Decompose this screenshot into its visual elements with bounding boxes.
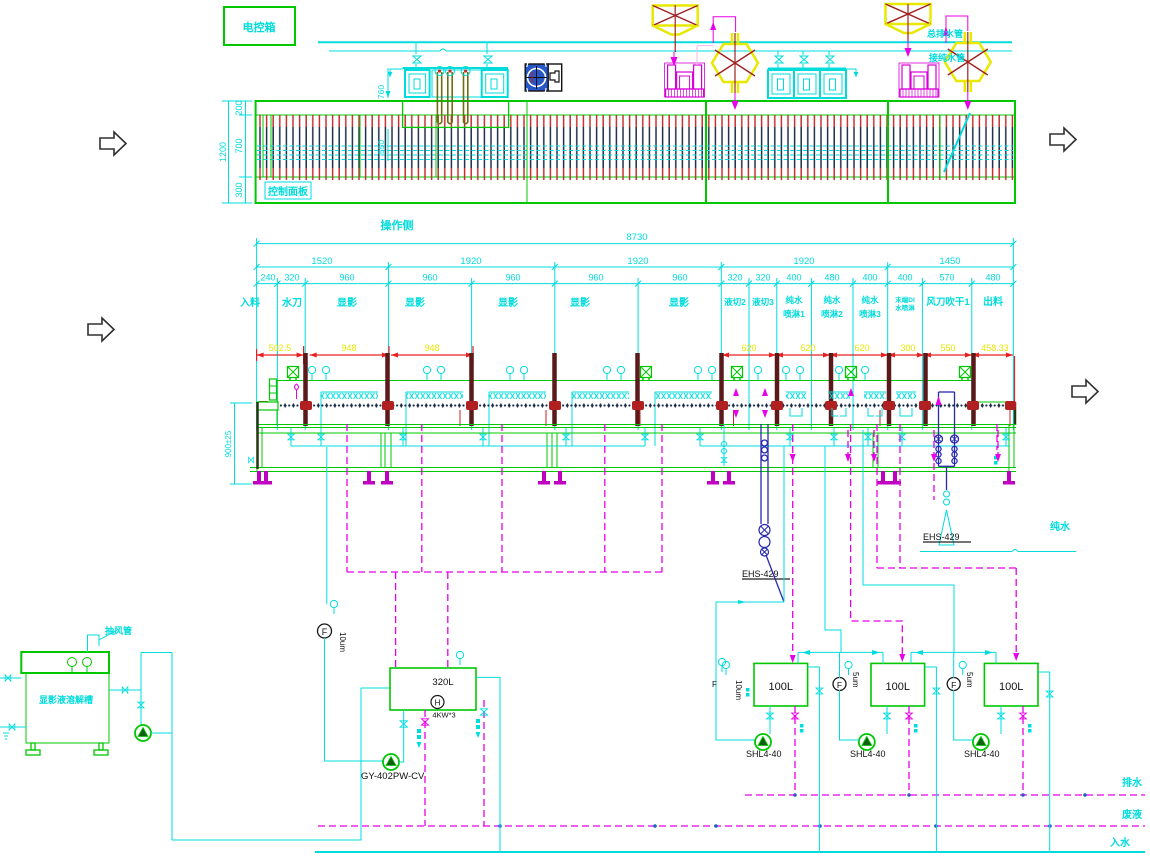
svg-text:100L: 100L bbox=[999, 681, 1023, 693]
magenta flag bbox=[295, 384, 299, 399]
spray bars (developing zones) bbox=[321, 392, 916, 399]
svg-text:1450: 1450 bbox=[939, 256, 960, 267]
svg-text:1920: 1920 bbox=[460, 256, 481, 267]
tank bottom / frame bbox=[257, 424, 1016, 426]
svg-text:960: 960 bbox=[505, 273, 520, 283]
svg-text:出料: 出料 bbox=[983, 295, 1003, 308]
svg-text:948: 948 bbox=[424, 343, 439, 353]
vent pipe 抽风管 bbox=[88, 635, 100, 652]
svg-text:960: 960 bbox=[588, 273, 603, 283]
svg-text:总排水管: 总排水管 bbox=[927, 28, 963, 39]
svg-text:4KW*3: 4KW*3 bbox=[432, 711, 455, 720]
svg-text:水刀: 水刀 bbox=[281, 296, 302, 309]
svg-text:F: F bbox=[712, 680, 717, 689]
svg-text:显影: 显影 bbox=[669, 297, 689, 309]
right side drain header bbox=[700, 445, 1010, 447]
svg-text:458.33: 458.33 bbox=[981, 343, 1009, 353]
drain header bbox=[291, 445, 645, 447]
svg-text:700: 700 bbox=[234, 138, 244, 153]
svg-text:400: 400 bbox=[786, 273, 801, 283]
junction dots on mains bbox=[498, 793, 1087, 828]
svg-text:喷淋1: 喷淋1 bbox=[783, 309, 805, 319]
gauge pairs bbox=[308, 366, 315, 380]
red sub-dims with yellow labels bbox=[257, 346, 1013, 364]
pure water line 纯水 bbox=[920, 551, 1012, 553]
left tank side valves bbox=[0, 677, 21, 679]
green sub box under manifold A bbox=[403, 101, 509, 127]
760 / 550 small vertical dims bbox=[387, 68, 389, 98]
door diagonal bbox=[944, 113, 970, 172]
magenta arrows in right zones bbox=[733, 388, 854, 418]
short magenta drain stubs with arrows under machine bbox=[848, 430, 998, 500]
svg-text:1920: 1920 bbox=[627, 256, 648, 267]
svg-text:320: 320 bbox=[727, 273, 742, 283]
svg-text:显影: 显影 bbox=[405, 297, 425, 309]
drain line 排水 bbox=[745, 794, 1145, 796]
svg-text:480: 480 bbox=[985, 273, 1000, 283]
filter F 10um chain bbox=[326, 447, 328, 604]
feed manifolds above tanks bbox=[798, 651, 883, 653]
magenta duct route 1 bbox=[713, 17, 735, 43]
roller dot row bbox=[258, 402, 1016, 409]
control panel label 控制面板 bbox=[265, 182, 311, 199]
svg-text:喷淋2: 喷淋2 bbox=[821, 309, 843, 319]
valves above manifold B bbox=[778, 51, 829, 70]
pump GY-402PW-CV bbox=[383, 754, 399, 770]
cyan dashed center lines bbox=[257, 146, 1013, 160]
red clusters on roller row bbox=[258, 401, 1016, 410]
svg-text:排水: 排水 bbox=[1122, 776, 1143, 789]
cyan hooks under spray zones right bbox=[790, 408, 912, 416]
plan section dividers bbox=[262, 115, 264, 177]
svg-text:显影液溶解槽: 显影液溶解槽 bbox=[39, 694, 93, 705]
svg-text:620: 620 bbox=[741, 343, 756, 353]
svg-text:1920: 1920 bbox=[793, 256, 814, 267]
900±25 dim bbox=[234, 403, 236, 484]
svg-text:200: 200 bbox=[234, 100, 244, 115]
svg-text:240: 240 bbox=[260, 273, 275, 283]
svg-text:入水: 入水 bbox=[1110, 836, 1131, 849]
svg-text:100L: 100L bbox=[769, 681, 793, 693]
tank top line bbox=[277, 380, 974, 382]
svg-text:760: 760 bbox=[376, 85, 386, 99]
green X boxes on top bbox=[288, 367, 299, 382]
svg-text:900±25: 900±25 bbox=[224, 430, 233, 457]
svg-text:F: F bbox=[951, 680, 956, 690]
svg-text:960: 960 bbox=[339, 273, 354, 283]
svg-text:1520: 1520 bbox=[311, 256, 332, 267]
svg-text:10um: 10um bbox=[338, 632, 347, 652]
pump left tank bbox=[135, 725, 151, 741]
svg-text:10um: 10um bbox=[734, 680, 743, 700]
entry platform and signal column bbox=[257, 402, 278, 410]
svg-text:入料: 入料 bbox=[240, 296, 260, 309]
svg-text:300: 300 bbox=[900, 343, 915, 353]
svg-text:620: 620 bbox=[800, 343, 815, 353]
svg-text:400: 400 bbox=[862, 273, 877, 283]
svg-text:320: 320 bbox=[755, 273, 770, 283]
svg-text:纯水: 纯水 bbox=[823, 295, 841, 305]
svg-text:502.5: 502.5 bbox=[269, 343, 292, 353]
flow arrows bbox=[100, 132, 126, 155]
zone labels bbox=[240, 296, 689, 309]
svg-text:480: 480 bbox=[824, 273, 839, 283]
magenta dashed feeds from machine to tanks bbox=[792, 424, 794, 660]
extension/boundary verticals bbox=[257, 238, 1014, 430]
svg-text:纯水: 纯水 bbox=[785, 295, 803, 305]
svg-text:显影: 显影 bbox=[337, 297, 357, 309]
manifold A (cyan) with olive pipes bbox=[403, 67, 508, 69]
svg-text:320: 320 bbox=[284, 273, 299, 283]
svg-text:液切2: 液切2 bbox=[724, 297, 746, 307]
roller band bbox=[257, 115, 1014, 180]
fan unit (blue) bbox=[525, 64, 548, 91]
overall dim 8730 bbox=[257, 244, 1014, 284]
svg-text:控制面板: 控制面板 bbox=[268, 185, 309, 198]
left elbow of manifold A bbox=[390, 69, 403, 77]
svg-text:接纯水管: 接纯水管 bbox=[929, 52, 965, 63]
320L waste dashed bbox=[424, 710, 426, 826]
collector dashed from machine bbox=[346, 424, 348, 572]
svg-text:抽风管: 抽风管 bbox=[105, 625, 132, 636]
svg-text:纯水: 纯水 bbox=[1050, 520, 1071, 533]
svg-text:550: 550 bbox=[376, 140, 386, 154]
svg-text:570: 570 bbox=[939, 273, 954, 283]
left dissolving tank 显影液溶解槽 bbox=[21, 652, 109, 755]
svg-text:液切3: 液切3 bbox=[752, 297, 774, 307]
water inlet 入水 bbox=[315, 851, 1145, 853]
right elbow arrow of manifold B bbox=[846, 69, 856, 77]
left dimension 1200/200/700/300 bbox=[222, 101, 252, 203]
exhaust fan assembly 2 bbox=[886, 4, 931, 33]
svg-text:显影: 显影 bbox=[570, 297, 590, 309]
feed dashed into 320L top bbox=[395, 572, 397, 668]
main cyan pipe runs above plan bbox=[318, 41, 1012, 43]
navy EHS chain 1 bbox=[760, 424, 762, 524]
svg-text:SHL4-40: SHL4-40 bbox=[746, 749, 782, 759]
electric control box 电控箱 bbox=[224, 7, 295, 45]
svg-text:纯水: 纯水 bbox=[861, 295, 879, 305]
dark section posts bbox=[306, 353, 974, 426]
legs bbox=[253, 471, 265, 485]
svg-text:550: 550 bbox=[940, 343, 955, 353]
tank right outlet with valve bbox=[109, 689, 141, 691]
svg-text:H: H bbox=[435, 699, 441, 708]
svg-text:废液: 废液 bbox=[1122, 808, 1142, 821]
svg-text:水喷淋: 水喷淋 bbox=[895, 303, 915, 312]
svg-text:5um: 5um bbox=[965, 672, 974, 688]
plan outer frame bbox=[256, 101, 1015, 203]
valves above manifold A bbox=[415, 42, 417, 54]
svg-text:GY-402PW-CV: GY-402PW-CV bbox=[361, 771, 425, 782]
manifold B: three cyan boxes with valves bbox=[768, 68, 846, 70]
navy EHS chain 2 bbox=[935, 392, 959, 490]
320L right outlet bbox=[476, 677, 500, 852]
olive dip pipes bbox=[437, 72, 467, 124]
cyan chain from EHS1 to pump1 bbox=[716, 602, 784, 740]
svg-text:960: 960 bbox=[672, 273, 687, 283]
svg-text:8730: 8730 bbox=[626, 232, 647, 243]
cyan feeds from machine bbox=[715, 602, 717, 605]
svg-text:F: F bbox=[322, 627, 328, 637]
svg-text:操作侧: 操作侧 bbox=[381, 218, 414, 232]
long run to inlet bbox=[172, 688, 390, 840]
svg-text:电控箱: 电控箱 bbox=[243, 20, 276, 34]
svg-text:400: 400 bbox=[897, 273, 912, 283]
svg-text:300: 300 bbox=[234, 182, 244, 197]
svg-text:100L: 100L bbox=[886, 681, 910, 693]
svg-text:末端DI: 末端DI bbox=[895, 295, 915, 304]
svg-text:960: 960 bbox=[422, 273, 437, 283]
exhaust fan assembly 1 bbox=[653, 6, 698, 35]
magenta duct route 2 bbox=[946, 16, 968, 43]
svg-text:620: 620 bbox=[854, 343, 869, 353]
svg-text:5um: 5um bbox=[851, 672, 860, 688]
svg-text:F: F bbox=[837, 680, 842, 690]
svg-text:喷淋3: 喷淋3 bbox=[859, 309, 881, 319]
svg-text:显影: 显影 bbox=[498, 297, 518, 309]
svg-text:948: 948 bbox=[341, 343, 356, 353]
svg-text:SHL4-40: SHL4-40 bbox=[964, 749, 1000, 759]
svg-text:EHS-429: EHS-429 bbox=[923, 532, 960, 542]
svg-text:风刀吹干1: 风刀吹干1 bbox=[926, 296, 970, 308]
svg-text:SHL4-40: SHL4-40 bbox=[850, 749, 886, 759]
svg-text:1200: 1200 bbox=[218, 142, 228, 162]
spray risers bbox=[321, 392, 655, 446]
level3 labels bbox=[260, 273, 1000, 283]
svg-text:320L: 320L bbox=[432, 677, 453, 688]
waste line 废液 bbox=[318, 825, 1145, 827]
